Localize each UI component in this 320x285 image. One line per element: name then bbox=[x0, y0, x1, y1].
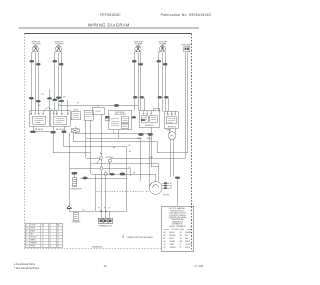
svg-text:N: N bbox=[104, 207, 105, 209]
display box bbox=[92, 106, 104, 115]
svg-text:GY: GY bbox=[164, 244, 166, 246]
lamp link wire bbox=[110, 158, 185, 160]
wire lower b bbox=[68, 133, 70, 206]
terminal block bbox=[98, 218, 113, 227]
svg-text:18: 18 bbox=[50, 242, 52, 244]
surface unit RR label bbox=[134, 41, 143, 45]
plug sensor branch bbox=[83, 177, 88, 179]
connector plug LF bbox=[53, 60, 64, 65]
spade connector sensor bbox=[67, 206, 72, 208]
terminal riser 2 bbox=[105, 176, 107, 219]
svg-text:YL: YL bbox=[180, 244, 182, 246]
inline plug LR bbox=[158, 96, 162, 98]
surface unit RF leads bbox=[32, 51, 39, 63]
frame right double dashed bbox=[191, 34, 193, 250]
right riser c bbox=[148, 134, 150, 186]
svg-text:C: C bbox=[26, 224, 27, 226]
svg-text:12: 12 bbox=[42, 230, 44, 232]
svg-text:3.0: 3.0 bbox=[57, 230, 59, 232]
EOC drop wires bbox=[113, 130, 118, 138]
svg-text:WHITE: WHITE bbox=[30, 227, 35, 229]
inline plug RR bbox=[133, 96, 137, 98]
svg-text:* CABINET MUST BE GROUNDED: * CABINET MUST BE GROUNDED bbox=[126, 236, 153, 239]
svg-text:BK: BK bbox=[170, 183, 172, 185]
svg-text:WIRING DIAGRAM: WIRING DIAGRAM bbox=[88, 22, 130, 27]
svg-text:RT FRONT: RT FRONT bbox=[32, 44, 40, 46]
frame top bbox=[24, 33, 191, 35]
svg-text:* Non-functional Parts: * Non-functional Parts bbox=[14, 266, 40, 270]
svg-text:16: 16 bbox=[50, 236, 52, 238]
lamp circuit contact bbox=[104, 173, 107, 176]
surface unit LF leads bbox=[55, 51, 62, 63]
svg-text:WHITE: WHITE bbox=[185, 241, 190, 243]
surface unit LR element bbox=[159, 45, 165, 52]
svg-text:RED: RED bbox=[30, 233, 33, 235]
svg-text:P2: P2 bbox=[97, 106, 99, 108]
inline plug left2 bbox=[59, 100, 63, 102]
bulb leads bbox=[169, 129, 178, 206]
svg-text:18: 18 bbox=[50, 245, 52, 247]
right riser a bbox=[126, 147, 128, 212]
svg-text:B: B bbox=[26, 230, 27, 232]
wire LR down bbox=[159, 52, 168, 111]
bottom bus wire bbox=[69, 208, 126, 211]
plug EOC right bbox=[132, 116, 136, 118]
riser stair3 bbox=[73, 132, 157, 142]
clock box bbox=[84, 110, 93, 120]
surface unit RR element bbox=[135, 45, 141, 52]
svg-text:14: 14 bbox=[42, 227, 44, 229]
timer box bbox=[71, 109, 81, 120]
svg-text:CLOCK: CLOCK bbox=[95, 111, 100, 113]
svg-text:RD: RD bbox=[170, 188, 172, 190]
terminal block labels bbox=[98, 207, 110, 209]
svg-text:WH: WH bbox=[170, 186, 172, 188]
inline plug left5 bbox=[47, 97, 51, 99]
svg-text:Publication No. 5995419160: Publication No. 5995419160 bbox=[161, 13, 211, 17]
riser LF2 bbox=[53, 133, 91, 152]
svg-text:G: G bbox=[26, 239, 27, 241]
svg-text:YELLOW: YELLOW bbox=[185, 244, 192, 246]
svg-text:WH: WH bbox=[180, 241, 183, 243]
oven light receptacle bbox=[184, 47, 190, 52]
motor terminal labels bbox=[170, 183, 172, 190]
connector plug RR bbox=[132, 60, 143, 65]
oven sensor probe bbox=[70, 174, 82, 190]
wire labels bbox=[113, 145, 153, 175]
surface unit LR label bbox=[158, 41, 167, 45]
svg-text:14: 14 bbox=[50, 227, 52, 229]
svg-text:COLOR: COLOR bbox=[30, 224, 35, 226]
svg-text:14: 14 bbox=[50, 224, 52, 226]
svg-text:OVEN SENSOR: OVEN SENSOR bbox=[70, 188, 82, 190]
svg-text:OVEN LAMP: OVEN LAMP bbox=[181, 44, 192, 47]
svg-text:LT REAR: LT REAR bbox=[159, 43, 167, 46]
surface unit LR leads bbox=[159, 51, 166, 63]
svg-text:P11: P11 bbox=[58, 105, 61, 107]
svg-text:1.3: 1.3 bbox=[57, 239, 59, 241]
inline plug left4 bbox=[53, 99, 57, 101]
door switch contact 2 bbox=[108, 159, 111, 162]
svg-text:VIOLET: VIOLET bbox=[185, 247, 191, 249]
svg-text:18: 18 bbox=[42, 242, 44, 244]
svg-text:P6: P6 bbox=[39, 105, 41, 107]
svg-text:P1: P1 bbox=[98, 207, 100, 209]
svg-text:VERIFY OPERATION: VERIFY OPERATION bbox=[169, 225, 186, 228]
svg-text:BROWN: BROWN bbox=[170, 235, 176, 237]
oven temp sensor resistor bbox=[72, 211, 82, 223]
svg-text:2.0: 2.0 bbox=[57, 227, 59, 229]
frame left dashed bbox=[23, 34, 25, 250]
infinite switch RR box bbox=[139, 108, 159, 127]
svg-text:14: 14 bbox=[50, 233, 52, 235]
svg-text:0.8: 0.8 bbox=[57, 242, 59, 244]
door feed wire bbox=[86, 157, 100, 159]
oven motor circle bbox=[149, 182, 162, 195]
surface unit LF label bbox=[54, 41, 63, 45]
ground note bbox=[122, 235, 124, 238]
plug lamp branch bbox=[141, 119, 145, 121]
svg-text:INF SW LR: INF SW LR bbox=[168, 126, 177, 128]
fuse switch symbol bbox=[71, 129, 79, 133]
wire RR down bbox=[134, 52, 144, 111]
header rule bbox=[19, 27, 199, 29]
wire LF down bbox=[55, 52, 68, 111]
wire RF down bbox=[31, 52, 38, 111]
sensor branch wire bbox=[81, 177, 127, 179]
terminal block drops bbox=[108, 211, 110, 218]
svg-text:VIOLET: VIOLET bbox=[30, 245, 35, 247]
stair wire4 bbox=[86, 120, 140, 158]
infinite switch RF box bbox=[29, 111, 49, 131]
svg-text:e Functional Parts: e Functional Parts bbox=[14, 262, 36, 266]
svg-text:INF SW RF: INF SW RF bbox=[35, 129, 43, 131]
bake broil labels bbox=[138, 137, 152, 140]
oven light bulb bbox=[168, 132, 176, 140]
door feed riser bbox=[100, 115, 102, 157]
oven light label bbox=[181, 44, 192, 47]
terminal riser 1 bbox=[100, 170, 102, 219]
plug right row2 bbox=[148, 133, 153, 135]
svg-text:P5: P5 bbox=[77, 103, 79, 105]
svg-text:YELLOW: YELLOW bbox=[30, 236, 36, 238]
plug bake wire bbox=[120, 173, 125, 175]
wire lower e bbox=[94, 174, 96, 211]
svg-text:-11-: -11- bbox=[103, 264, 108, 268]
svg-text:316080204: 316080204 bbox=[92, 246, 104, 248]
svg-text:16: 16 bbox=[50, 239, 52, 241]
bake wire top bbox=[92, 174, 156, 181]
svg-text:RT REAR: RT REAR bbox=[135, 43, 143, 46]
light circuit contact bbox=[100, 167, 103, 170]
svg-text:0.8: 0.8 bbox=[57, 245, 59, 247]
table text bbox=[26, 223, 60, 247]
svg-text:2.0: 2.0 bbox=[57, 233, 59, 235]
inline plug left6 bbox=[56, 97, 60, 99]
infinite switch LF box bbox=[50, 111, 70, 131]
oven sensor plug bbox=[72, 172, 77, 174]
svg-text:16: 16 bbox=[42, 239, 44, 241]
svg-text:FEF351BSC: FEF351BSC bbox=[100, 13, 121, 17]
surface unit RF element bbox=[33, 45, 39, 52]
svg-text:INF SW RR: INF SW RR bbox=[145, 125, 154, 127]
bus wire center bbox=[60, 106, 138, 111]
svg-text:DOOR SW: DOOR SW bbox=[106, 157, 114, 159]
door switch contact 1 bbox=[97, 156, 103, 163]
svg-text:CY 104: CY 104 bbox=[194, 264, 203, 268]
svg-text:BK: BK bbox=[129, 145, 131, 147]
door switch wires bbox=[91, 159, 159, 174]
svg-text:ELECTRONIC: ELECTRONIC bbox=[115, 112, 126, 114]
svg-text:TN: TN bbox=[180, 238, 182, 240]
svg-text:VT: VT bbox=[180, 247, 182, 249]
svg-text:1.3: 1.3 bbox=[57, 236, 59, 238]
electronic oven control box bbox=[109, 110, 131, 130]
svg-text:GREEN: GREEN bbox=[170, 241, 176, 243]
svg-text:V: V bbox=[26, 245, 27, 247]
notes box bbox=[162, 206, 194, 252]
svg-text:PURPLE: PURPLE bbox=[170, 247, 176, 249]
connector plug LR bbox=[157, 60, 168, 65]
wire stub left5 bbox=[49, 89, 51, 111]
wire color table bbox=[26, 223, 63, 247]
svg-text:P12: P12 bbox=[42, 94, 45, 96]
svg-text:16: 16 bbox=[42, 236, 44, 238]
frame bottom dashed bbox=[24, 248, 161, 250]
svg-text:R: R bbox=[26, 233, 27, 235]
surface unit RR leads bbox=[134, 51, 141, 63]
plug right row1 bbox=[138, 133, 143, 135]
svg-text:OVEN CONTROL: OVEN CONTROL bbox=[114, 114, 126, 116]
plug right drop bbox=[175, 177, 180, 179]
svg-text:P9: P9 bbox=[64, 97, 66, 99]
footer left bbox=[14, 262, 40, 270]
surface unit RF label bbox=[31, 41, 40, 45]
svg-text:BL: BL bbox=[164, 238, 166, 240]
plug EOC left bbox=[105, 116, 109, 118]
right riser b bbox=[139, 138, 141, 181]
plug lamp circuit bbox=[110, 173, 115, 175]
svg-text:18: 18 bbox=[42, 245, 44, 247]
svg-text:P4 SENSOR: P4 SENSOR bbox=[72, 222, 82, 224]
jumper arch between switches bbox=[45, 108, 53, 111]
svg-text:14: 14 bbox=[42, 233, 44, 235]
door switch node bbox=[100, 153, 101, 154]
right riser d bbox=[157, 142, 188, 153]
infinite switch LR box bbox=[164, 111, 178, 129]
inline plug left1 bbox=[29, 97, 33, 99]
stair top wire bbox=[75, 132, 149, 134]
small aux box bbox=[105, 116, 109, 120]
oven light wires bbox=[185, 52, 187, 159]
svg-text:BLUE: BLUE bbox=[170, 238, 174, 240]
inline plug left3 bbox=[36, 100, 40, 102]
door riser bbox=[90, 120, 92, 174]
svg-text:Y: Y bbox=[26, 236, 27, 238]
svg-text:LT FRONT: LT FRONT bbox=[55, 44, 63, 46]
light wire bbox=[69, 168, 130, 176]
svg-text:GREEN: GREEN bbox=[30, 239, 35, 241]
motor feed dashed bbox=[96, 191, 149, 193]
riser stair2 bbox=[64, 133, 128, 147]
svg-text:12: 12 bbox=[50, 230, 52, 232]
svg-text:GN: GN bbox=[164, 241, 166, 243]
light return wire bbox=[151, 127, 159, 182]
connector row below switches bbox=[29, 126, 75, 133]
motor terminals bbox=[162, 182, 169, 189]
svg-text:L2: L2 bbox=[108, 207, 110, 209]
svg-text:MOTOR: MOTOR bbox=[163, 195, 170, 197]
inline plug bus bbox=[114, 104, 119, 106]
svg-text:OPERATION.: OPERATION. bbox=[172, 223, 183, 226]
svg-text:COLOR CODE: COLOR CODE bbox=[171, 229, 184, 231]
surface unit LF element bbox=[56, 45, 62, 52]
connector plug RF bbox=[30, 60, 41, 65]
